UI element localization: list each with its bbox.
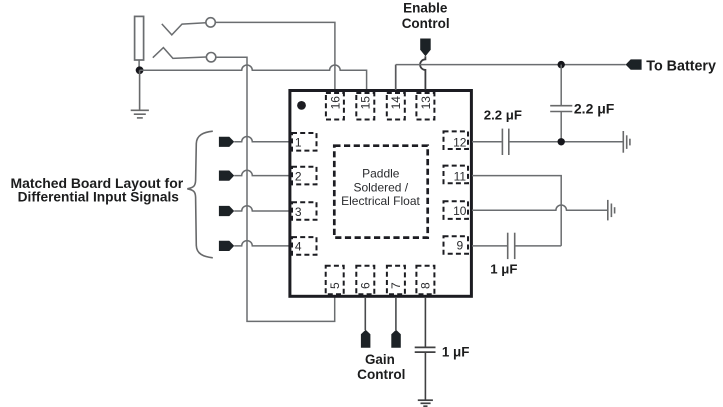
svg-text:Control: Control — [357, 367, 405, 382]
svg-text:7: 7 — [389, 282, 403, 289]
svg-text:2.2 μF: 2.2 μF — [484, 108, 522, 123]
svg-text:2.2 μF: 2.2 μF — [574, 101, 615, 117]
svg-text:13: 13 — [419, 96, 433, 110]
svg-text:1: 1 — [295, 136, 302, 150]
svg-text:Differential Input Signals: Differential Input Signals — [18, 189, 180, 204]
svg-text:1 μF: 1 μF — [442, 345, 470, 360]
svg-text:Matched Board Layout for: Matched Board Layout for — [10, 175, 183, 191]
svg-text:10: 10 — [453, 204, 467, 218]
svg-text:11: 11 — [454, 169, 467, 183]
svg-text:Electrical Float: Electrical Float — [341, 194, 420, 208]
svg-text:8: 8 — [419, 282, 433, 289]
svg-text:Enable: Enable — [403, 0, 448, 15]
svg-text:15: 15 — [359, 96, 373, 110]
svg-text:Gain: Gain — [365, 352, 395, 367]
svg-text:1 μF: 1 μF — [490, 262, 517, 277]
svg-text:Paddle: Paddle — [362, 167, 400, 181]
svg-text:14: 14 — [389, 96, 403, 110]
svg-text:12: 12 — [453, 136, 467, 150]
svg-text:Soldered /: Soldered / — [353, 180, 408, 194]
svg-text:4: 4 — [295, 240, 302, 254]
svg-text:5: 5 — [328, 282, 342, 289]
svg-text:Control: Control — [402, 16, 450, 31]
svg-text:3: 3 — [295, 205, 302, 219]
svg-text:9: 9 — [456, 238, 463, 252]
svg-text:2: 2 — [295, 169, 302, 183]
svg-text:To Battery: To Battery — [646, 59, 716, 75]
svg-text:6: 6 — [358, 282, 372, 289]
svg-text:16: 16 — [328, 96, 342, 110]
